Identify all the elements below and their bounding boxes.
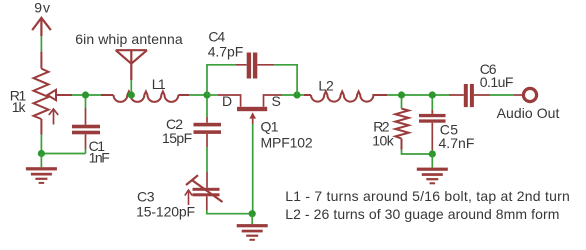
transistor Q1 bbox=[218, 95, 282, 124]
svg-text:6in whip antenna: 6in whip antenna bbox=[75, 31, 183, 47]
svg-text:15pF: 15pF bbox=[162, 130, 192, 146]
R1 adjust arrow bbox=[49, 109, 58, 125]
capacitor C5 bbox=[419, 114, 446, 123]
svg-text:15-120pF: 15-120pF bbox=[136, 203, 195, 219]
capacitor C2 bbox=[194, 123, 222, 134]
svg-text:1nF: 1nF bbox=[89, 150, 110, 166]
supply 9V arrow bbox=[32, 18, 51, 36]
node gate junction bbox=[249, 210, 256, 217]
capacitor C6 bbox=[449, 84, 490, 107]
wire R2 bottom to C5 bottom bbox=[402, 150, 433, 154]
svg-text:4.7pF: 4.7pF bbox=[208, 44, 244, 60]
svg-text:9v: 9v bbox=[34, 0, 50, 16]
C2 leads bbox=[206, 117, 208, 147]
svg-text:S: S bbox=[272, 93, 281, 109]
capacitor C4 bbox=[236, 53, 274, 79]
svg-text:L2 - 26 turns of 30 guage arou: L2 - 26 turns of 30 guage around 8mm for… bbox=[285, 206, 559, 222]
ground (left) bbox=[26, 154, 57, 184]
C3 adjust arrow bbox=[185, 190, 192, 205]
wire wiper to node A bbox=[72, 94, 101, 96]
svg-text:MPF102: MPF102 bbox=[261, 134, 313, 150]
capacitor C1 bbox=[72, 125, 100, 135]
node D junction bbox=[203, 91, 210, 98]
node antenna tap junction bbox=[128, 91, 135, 98]
resistor R2 bbox=[395, 98, 408, 150]
svg-text:C3: C3 bbox=[137, 189, 155, 205]
capacitor C4 bridge wires bbox=[207, 65, 297, 95]
svg-text:Audio Out: Audio Out bbox=[497, 105, 560, 121]
node S junction bbox=[293, 91, 300, 98]
wire Q1 gate down bbox=[252, 124, 254, 214]
wire Q1 source to node S bbox=[282, 94, 304, 96]
wire node D down to C2 bbox=[206, 98, 208, 117]
capacitor C3 (trimmer) bbox=[186, 172, 223, 210]
svg-text:L1 - 7 turns around 5/16 bolt,: L1 - 7 turns around 5/16 bolt, tap at 2n… bbox=[285, 188, 570, 204]
svg-text:10k: 10k bbox=[372, 133, 395, 149]
wire C3 bottom to gate node bbox=[207, 210, 252, 214]
node C5 junction bbox=[429, 91, 436, 98]
svg-text:Q1: Q1 bbox=[261, 118, 279, 134]
wire L2 to C6 bbox=[387, 94, 449, 96]
wire L1 to node D bbox=[189, 94, 207, 96]
svg-text:C4: C4 bbox=[208, 28, 225, 44]
C5 leads bbox=[431, 98, 433, 114]
wire antenna to tap bbox=[130, 80, 132, 92]
svg-text:1k: 1k bbox=[12, 99, 27, 115]
wire 9v to R1 bbox=[40, 36, 42, 52]
output port circle bbox=[523, 88, 536, 101]
node C5 bottom junction bbox=[429, 150, 436, 157]
resistor R1 (potentiometer) bbox=[34, 52, 73, 135]
ground (middle) bbox=[237, 214, 268, 241]
svg-text:0.1uF: 0.1uF bbox=[480, 74, 514, 90]
node B junction (R1 bottom) bbox=[38, 150, 45, 157]
wire C2 to C3 bbox=[206, 147, 208, 172]
svg-text:D: D bbox=[222, 93, 232, 109]
C1 leads bbox=[85, 98, 87, 108]
inductor L1 bbox=[101, 91, 189, 102]
svg-text:L2: L2 bbox=[318, 78, 334, 94]
node R2 junction bbox=[398, 91, 405, 98]
node A junction bbox=[82, 91, 89, 98]
ground (right) bbox=[417, 154, 448, 184]
wire node D to Q1 drain bbox=[207, 94, 218, 96]
wire R1 bottom to ground rail bbox=[41, 135, 85, 154]
svg-text:4.7nF: 4.7nF bbox=[439, 135, 475, 151]
output pin wire bbox=[514, 94, 523, 96]
inductor L2 bbox=[304, 91, 387, 101]
svg-text:L1: L1 bbox=[152, 76, 166, 92]
wire C6 to output bbox=[490, 94, 514, 96]
antenna symbol bbox=[116, 50, 147, 80]
